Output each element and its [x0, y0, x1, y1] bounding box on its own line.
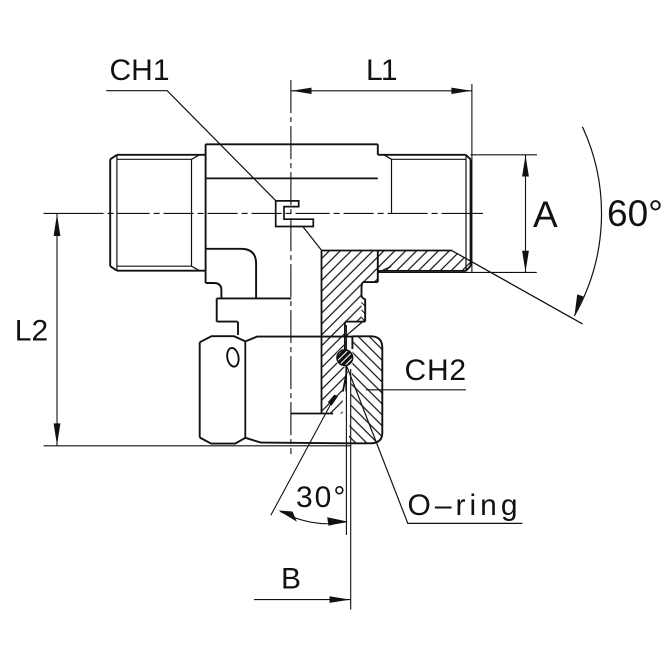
stud end face	[291, 413, 333, 415]
right thread runout top	[384, 155, 392, 160]
thread chamfer diag right of nut	[347, 320, 365, 337]
cone line + construction to 60 deg arc	[452, 251, 582, 324]
bore wall of branch	[321, 251, 323, 414]
collar left edge	[216, 298, 218, 321]
nut bottom right rounded	[350, 433, 382, 443]
left thread end	[191, 159, 193, 266]
svg-text:L1: L1	[366, 54, 397, 87]
nut section top + right rounded corner	[352, 336, 382, 348]
right thread runout bottom (section)	[378, 266, 391, 272]
right thread end (top half only)	[391, 159, 393, 213]
left thread minor lines	[117, 159, 192, 266]
svg-text:60°: 60°	[607, 193, 663, 234]
body section hatch (right of centerline)	[322, 251, 471, 414]
vertical centerline	[290, 80, 292, 454]
horizontal centerline	[44, 80, 483, 454]
seat cone face	[343, 371, 347, 392]
outer bottom (section boundary)	[378, 270, 466, 272]
body right edge lower	[377, 251, 379, 283]
hex left edge	[199, 342, 201, 437]
end chamfer vertical	[465, 155, 467, 270]
body top edge	[206, 143, 378, 145]
B extension vertical	[350, 369, 352, 610]
hex bottom	[200, 438, 350, 444]
body facet line	[206, 177, 378, 179]
body bottom left + fillet to branch wall	[206, 283, 222, 298]
outer top	[378, 154, 466, 156]
male stud left: outer edges	[110, 155, 205, 271]
svg-text:B: B	[281, 562, 301, 595]
nut section inner edge	[351, 336, 353, 349]
svg-text:CH1: CH1	[110, 54, 170, 87]
svg-text:A: A	[533, 194, 558, 235]
bore line under male end	[322, 250, 453, 252]
svg-text:L2: L2	[15, 314, 48, 347]
collar top edge	[217, 297, 292, 299]
cone edge thin vertical	[345, 325, 347, 535]
end chamfers	[466, 155, 471, 271]
ellipse mark on nut	[226, 347, 240, 367]
nut collar sliver hatch	[362, 303, 366, 322]
o-ring white buffer	[336, 349, 354, 367]
body left edge	[205, 144, 207, 283]
neck left edge	[237, 322, 239, 335]
left chamfer vertical	[116, 155, 118, 270]
hex top edge	[200, 336, 353, 342]
svg-text:O–ring: O–ring	[408, 489, 522, 522]
left thread runout	[192, 155, 200, 271]
right thread minor top	[392, 158, 467, 160]
body bottom right + fillet to stud wall	[362, 282, 378, 322]
nut right edge	[381, 348, 383, 433]
collar bottom left	[217, 321, 238, 323]
nut hex section hatch	[349, 336, 383, 443]
svg-text:CH2: CH2	[405, 354, 467, 387]
end face	[470, 159, 472, 266]
svg-text:30°: 30°	[296, 481, 347, 514]
stud wall inside nut	[344, 322, 346, 350]
body right edge top	[377, 144, 379, 155]
collar bottom right	[345, 321, 365, 323]
hex facet line	[244, 341, 246, 437]
body lower step left + fillet	[206, 249, 257, 298]
